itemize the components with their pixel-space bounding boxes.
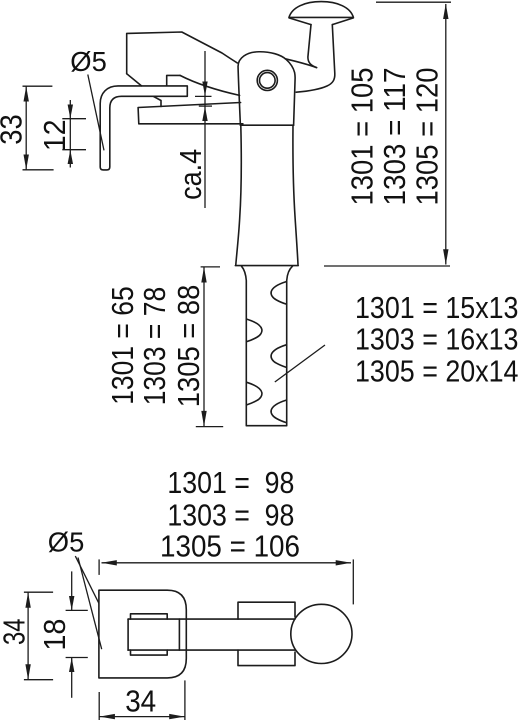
dimension 33 — [23, 86, 54, 170]
knob top view (ellipse) — [291, 604, 352, 663]
swivel bar — [128, 619, 295, 650]
svg-text:1301 = 98: 1301 = 98 — [167, 466, 294, 500]
svg-text:Ø5: Ø5 — [70, 46, 107, 77]
svg-text:34: 34 — [125, 684, 156, 718]
handle arm top edge — [285, 59, 316, 68]
latch body outline — [127, 32, 238, 86]
svg-text:1305 = 120: 1305 = 120 — [411, 68, 445, 206]
knob stem tab top — [238, 602, 295, 619]
svg-text:1303 = 98: 1303 = 98 — [167, 499, 294, 533]
svg-text:1301 = 105: 1301 = 105 — [346, 68, 380, 206]
neck taper — [236, 125, 298, 265]
svg-text:1305 = 88: 1305 = 88 — [172, 285, 206, 408]
svg-text:1305 = 20x14: 1305 = 20x14 — [355, 355, 519, 389]
dimension 65/78/88 left of shaft — [196, 267, 223, 427]
svg-text:12: 12 — [38, 120, 72, 152]
bent rod (O5) — [100, 86, 187, 170]
cage tab top — [131, 614, 168, 619]
svg-text:ca.4: ca.4 — [174, 149, 208, 200]
shaft notch right 3 — [271, 400, 287, 423]
svg-text:1303 = 78: 1303 = 78 — [138, 287, 172, 406]
svg-text:1305 = 106: 1305 = 106 — [160, 530, 300, 564]
dimension 98/106 line — [99, 559, 353, 604]
latch foot below rod — [154, 96, 162, 106]
shaft transition — [242, 266, 293, 426]
pivot ring inner — [260, 73, 276, 89]
O5 leader top — [88, 75, 104, 151]
cage tab bottom — [131, 650, 168, 655]
svg-text:1301 = 15x13: 1301 = 15x13 — [355, 291, 519, 325]
svg-text:33: 33 — [0, 114, 28, 145]
svg-text:18: 18 — [38, 619, 72, 651]
latch notch — [167, 75, 180, 85]
plate top view — [99, 590, 186, 678]
knob stem — [296, 25, 335, 93]
leader to size text — [275, 345, 325, 382]
svg-text:1301 = 65: 1301 = 65 — [106, 286, 140, 405]
knob cap — [289, 2, 353, 25]
shaft notch left 2 — [246, 382, 262, 405]
shaft notch right 1 — [271, 282, 287, 305]
O5 leaders bottom — [75, 556, 99, 603]
shoulder line — [235, 265, 298, 267]
head/neck step line — [240, 124, 293, 126]
shaft notch right 2 — [271, 345, 287, 368]
pivot head — [238, 52, 295, 125]
svg-text:Ø5: Ø5 — [48, 527, 85, 558]
latch tongue curve — [180, 75, 240, 95]
dimension 12 — [62, 100, 86, 168]
dimension 34 bottom — [99, 680, 185, 720]
dimension 105/117/120 right — [324, 2, 451, 266]
dimension 18 — [66, 571, 88, 697]
dimension ca.4 — [195, 51, 212, 208]
dimension 34 left — [24, 592, 53, 680]
base plate side view — [138, 103, 243, 124]
pivot ring outer — [257, 70, 277, 90]
svg-text:1303 = 16x13: 1303 = 16x13 — [355, 323, 519, 357]
svg-text:34: 34 — [0, 618, 32, 645]
knob stem tab bottom — [238, 650, 295, 666]
shaft notch left 1 — [246, 319, 262, 342]
svg-text:1303 = 117: 1303 = 117 — [378, 68, 412, 206]
